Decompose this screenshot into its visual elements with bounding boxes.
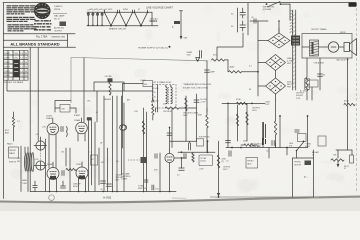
IF transformer T3 box — [153, 85, 177, 109]
wire feeder x30 — [29, 47, 31, 191]
resistor R6 on rail y103 — [236, 99, 247, 104]
capacitor on left bus — [33, 181, 38, 192]
cluster between verticals — [295, 130, 306, 142]
heater bus end stub — [151, 12, 153, 26]
mid bottom extra verticals — [66, 122, 99, 192]
capacitor C2 on x207 — [205, 70, 216, 74]
wire x196 to rail — [196, 120, 198, 141]
power note text — [138, 46, 171, 50]
wire V6 plate right — [174, 157, 186, 168]
wire x237 down — [237, 105, 239, 141]
chassis shield bar right — [295, 10, 297, 90]
capacitor C1 label cluster — [187, 51, 202, 59]
bottom caps cluster x100-112 — [100, 181, 112, 191]
wire x169 junction up — [167, 127, 172, 150]
grid resistor R7 x207 — [198, 112, 209, 152]
stub below rail 287 — [286, 148, 288, 156]
wire rail y103 — [222, 102, 265, 104]
tube V5 12SK7 — [76, 162, 88, 192]
wire x196 with cap — [194, 94, 207, 120]
wire AVC horizontal — [123, 83, 144, 85]
socket interconnect verticals — [276, 28, 280, 100]
verticals from padder area — [104, 96, 122, 192]
gang link dashed — [40, 150, 42, 161]
heater string pilot verticals — [87, 12, 103, 26]
wire x307 mid — [307, 115, 309, 147]
wire x228 down — [227, 103, 229, 147]
shield hatching — [293, 14, 296, 89]
cluster bars x270-278 — [272, 141, 276, 148]
junction dots rail y103 — [227, 103, 253, 105]
title block bottom rule — [3, 46, 75, 48]
wire R2 to R3 — [225, 60, 229, 72]
ground bus wire — [30, 191, 176, 193]
grid box after V5 — [91, 155, 98, 165]
tube V2 12BA6 IF — [76, 118, 88, 141]
title block text paragraph 3 — [8, 24, 37, 31]
small comp at x122 — [120, 125, 126, 148]
switch S2 right bottom — [296, 141, 305, 159]
wire from cap ladder down — [217, 33, 243, 58]
loop antenna L1 — [24, 153, 34, 172]
padder U bracket — [94, 82, 124, 91]
resistor R15 on x215 — [217, 155, 226, 168]
border left line — [2, 3, 4, 199]
winding hooks left of shield — [290, 11, 293, 33]
wire T1 to lamp — [319, 46, 329, 48]
tone cluster text — [250, 144, 265, 148]
resistor R14 on x186 — [185, 98, 187, 111]
wire x207 to box — [207, 141, 209, 152]
parts table grid — [3, 50, 28, 80]
resistor R10 x275 — [274, 100, 276, 148]
scatter labels upper body — [87, 99, 138, 115]
AVC line box — [143, 81, 153, 87]
capacitor ladder upper C3 — [231, 3, 248, 35]
resistor R5 right column — [344, 101, 355, 106]
loop wires — [21, 146, 28, 192]
ground return line y197 — [210, 196, 314, 198]
wire to socket V2 — [258, 62, 266, 64]
wire rail y141 — [170, 140, 197, 142]
left bottom text rows — [17, 158, 28, 185]
IF transformer windings — [154, 85, 173, 104]
phono motor box — [293, 150, 314, 197]
field coil lamp circle — [328, 42, 338, 52]
feeder vertical x84 — [84, 58, 103, 192]
wire x207 upper — [206, 108, 208, 112]
socket feed vertical x258 — [257, 21, 259, 96]
rail y91 long — [7, 80, 153, 91]
socket diagram V1 diamond — [268, 33, 290, 48]
battery cluster on bus — [152, 185, 159, 191]
wire x186 vertical — [185, 96, 187, 141]
wire rail y152 — [178, 151, 215, 153]
wire x172 down from IFT — [171, 108, 173, 148]
ground bus junction dots — [49, 191, 171, 193]
bus capacitor C12 — [61, 181, 66, 188]
wire box left stub — [302, 46, 310, 48]
junction dots on y147 — [231, 147, 288, 149]
socket diagram V3 diamond — [266, 78, 286, 94]
osc resistor box R17 — [55, 105, 76, 114]
arrow ground x215 — [217, 193, 220, 197]
capacitor ladder lower C4 — [231, 21, 245, 31]
title block right column text — [53, 6, 67, 32]
caps cluster under y152 — [184, 153, 194, 162]
component box at 196 140 — [197, 136, 211, 146]
border right faint line — [356, 3, 358, 192]
wire x218 long — [218, 141, 220, 197]
wire rail A sloped — [71, 57, 207, 60]
wire rail B to sockets — [242, 71, 259, 73]
IF trimmer caps below — [156, 108, 173, 113]
heater bottom bus wire — [87, 25, 158, 27]
gang top stub — [40, 137, 42, 141]
stub below rail 269 — [268, 148, 270, 159]
padder trimmer blob — [105, 75, 113, 82]
tuning capacitor section 1 — [34, 141, 47, 150]
wire drop x71 — [70, 57, 72, 103]
bottom scan edge band — [0, 198, 360, 212]
title block rule above name row — [3, 39, 67, 41]
phono box — [246, 158, 258, 169]
resistor R3 filter — [229, 66, 242, 73]
chassis shield bar left — [292, 10, 294, 90]
wire below box x320 — [319, 58, 321, 90]
band switch box — [9, 147, 19, 158]
resistor R9 on x247 — [246, 112, 248, 125]
wire below box x307 — [306, 58, 308, 77]
tube V4 12SA7 — [47, 162, 59, 192]
output cathode resistor R4 dark — [305, 77, 310, 91]
wire feeder x38 — [37, 47, 39, 140]
border top line — [3, 2, 356, 4]
wire x247 down — [246, 103, 248, 141]
AVC vertical with arrow — [152, 87, 154, 121]
title block text paragraph 1 — [7, 5, 36, 14]
heater lamp V symbol 3 — [134, 10, 149, 27]
small cluster caps near oscillator — [250, 17, 280, 33]
line cord box — [305, 80, 318, 100]
speaker SP1 — [344, 39, 357, 56]
heater lamp V symbol 2 — [119, 10, 134, 27]
socket diagram V1 labels — [291, 36, 300, 46]
title block right edge — [67, 34, 69, 48]
tone cluster under volume — [138, 180, 148, 190]
stage box 12SQ7 — [199, 155, 213, 166]
capacitor C6 on x228 — [226, 141, 231, 143]
cap pair C10 below y147 — [226, 151, 231, 163]
cap C9 vertical pair on y141 — [189, 141, 191, 150]
wire x122 down — [122, 84, 124, 129]
resistor R16 above y147 — [241, 141, 260, 148]
wire right column down — [347, 106, 349, 150]
capacitor C8 below V6 plate — [177, 168, 184, 177]
heater lamp V symbol 1 — [104, 10, 119, 27]
resistor R2 470 ohm — [212, 54, 225, 61]
caps between V4 V5 — [62, 168, 76, 175]
small box component right — [318, 136, 326, 146]
heater tube labels — [87, 8, 140, 12]
right corner circuit — [331, 150, 354, 170]
tube V6 50L6 output — [165, 150, 174, 192]
registration circle mark — [49, 195, 55, 201]
capacitor C5 on x320 — [318, 74, 326, 77]
resistor R8 on x237 — [236, 114, 238, 126]
title block text paragraph 2 — [7, 17, 36, 22]
small blob component x124 — [121, 103, 126, 192]
wire below R4 — [306, 91, 308, 100]
parts table dark cell block — [13, 60, 19, 77]
AC switch S1 on top line — [263, 2, 290, 20]
component bars x153-165 — [154, 153, 160, 192]
title block rule above fig row — [3, 33, 75, 35]
resistor pair x143 x146 — [142, 108, 146, 192]
dark cap C11 — [262, 138, 266, 145]
vertical right of gang — [45, 139, 47, 192]
padder squiggle — [109, 82, 111, 95]
wire lamp to speaker — [339, 46, 344, 48]
mid bottom small labels — [61, 152, 119, 165]
wire below box x347 — [347, 58, 349, 103]
output section box — [302, 34, 352, 59]
heater top bus wire — [87, 11, 152, 13]
volume pot marks — [128, 157, 147, 163]
left column labels near 265 — [265, 102, 270, 153]
wire rail y147 right — [226, 147, 308, 149]
socket diagram V2 diamond — [266, 55, 286, 71]
parts table cell text — [4, 53, 27, 77]
wire x207 long drop — [206, 61, 208, 112]
tube V1 12BE6 converter — [47, 118, 59, 168]
fig row text — [36, 35, 66, 39]
ballast line B minus — [172, 11, 188, 40]
logo seal circle — [34, 3, 50, 19]
resistor chain right of IFT — [163, 104, 197, 110]
tuning capacitor section 2 — [34, 161, 47, 170]
wire corner into osc resistor — [55, 101, 71, 113]
junction dots y152 — [181, 151, 209, 153]
electrolytic C7 dark bars — [262, 122, 266, 148]
rectifier mark on rail — [196, 58, 200, 62]
page number block top right — [349, 2, 357, 7]
wire to socket V1 — [258, 40, 268, 42]
logo lower caption rows — [34, 20, 52, 30]
wire IFT left stub — [157, 85, 159, 109]
wire x280 down — [279, 115, 281, 147]
bottom scan edge line — [0, 197, 360, 203]
resistor R12 left edge — [12, 112, 19, 141]
wire to socket V3 — [258, 85, 266, 87]
coupling caps between V1 V2 — [61, 127, 67, 137]
output transformer T1 hatched — [310, 40, 319, 56]
